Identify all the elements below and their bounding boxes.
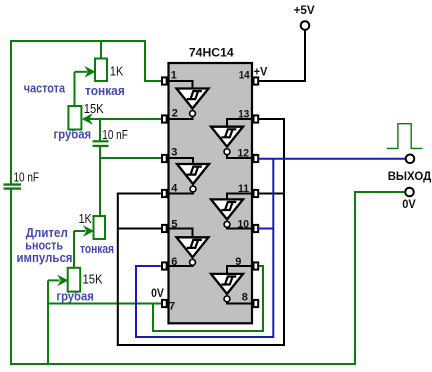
wire: pin 11 branch bbox=[258, 193, 284, 195]
svg-text:11: 11 bbox=[238, 183, 249, 195]
svg-text:тонкая: тонкая bbox=[85, 83, 125, 98]
op-amp U1F triangle bbox=[211, 274, 243, 294]
svg-text:2: 2 bbox=[172, 107, 178, 119]
svg-text:грубая: грубая bbox=[54, 127, 92, 142]
inverter U1E internal wiring (pin11 to pin10) bbox=[227, 194, 252, 229]
svg-text:5: 5 bbox=[171, 218, 177, 230]
svg-text:тонкая: тонкая bbox=[80, 241, 114, 256]
svg-text:15K: 15K bbox=[84, 101, 104, 116]
svg-text:15K: 15K bbox=[83, 272, 103, 287]
svg-text:4: 4 bbox=[171, 183, 178, 195]
ground rail 0V bottom bbox=[10, 363, 356, 365]
wire: left rail below C1 to ground rail bbox=[10, 189, 12, 365]
IC U1 74HC14 body bbox=[169, 63, 253, 323]
svg-text:10 nF: 10 nF bbox=[102, 127, 128, 142]
potentiometer R4 15K (duration coarse) bbox=[48, 268, 80, 292]
svg-text:грубая: грубая bbox=[56, 288, 93, 303]
svg-text:0V: 0V bbox=[151, 286, 164, 300]
pin pads left (1-7) bbox=[162, 77, 167, 307]
svg-text:7: 7 bbox=[169, 301, 175, 313]
svg-text:6: 6 bbox=[171, 256, 177, 268]
svg-text:74HC14: 74HC14 bbox=[189, 45, 234, 59]
terminal ВЫХОД bbox=[406, 155, 415, 164]
pin number labels bbox=[169, 70, 250, 313]
svg-text:+5V: +5V bbox=[294, 3, 315, 17]
svg-text:частота: частота bbox=[24, 80, 66, 95]
wire: pin 12 to output terminal bbox=[258, 158, 405, 160]
svg-text:ВЫХОД: ВЫХОД bbox=[388, 169, 432, 183]
svg-text:10 nF: 10 nF bbox=[14, 170, 40, 185]
potentiometer R3 1K (duration fine) bbox=[74, 216, 105, 239]
op-amp U1C triangle bbox=[177, 237, 209, 257]
svg-text:1: 1 bbox=[171, 70, 177, 82]
label Длительность импульса bbox=[17, 225, 73, 265]
svg-text:1K: 1K bbox=[79, 211, 92, 226]
svg-text:13: 13 bbox=[238, 108, 249, 120]
svg-text:14: 14 bbox=[239, 70, 251, 82]
capacitor C2 10nF (coupling) bbox=[93, 119, 109, 158]
wire: top-left rail from left rail to pin 1 bbox=[11, 41, 161, 184]
wire: green loop pin7 to pin 9 bbox=[153, 266, 263, 331]
wire: ground to pin 7 bbox=[48, 303, 161, 305]
inverter U1C internal wiring (pin5 to pin6) bbox=[168, 229, 193, 267]
pulse waveform symbol bbox=[387, 124, 423, 149]
inverter U1B internal wiring (pin3 to pin4) bbox=[168, 158, 194, 194]
wire: R3 wiper to R4 top bbox=[73, 231, 75, 268]
wire: 0V terminal to ground rail bbox=[355, 192, 405, 364]
wire: C2 bottom node to pin 3 bbox=[99, 157, 161, 159]
svg-text:8: 8 bbox=[242, 292, 248, 304]
inverter U1A internal wiring (pin1 to pin2) bbox=[168, 81, 193, 119]
op-amp U1A triangle bbox=[177, 89, 209, 109]
wire: pin 10 branch blue bbox=[258, 228, 273, 230]
pin pads right (8-14) bbox=[254, 77, 259, 307]
op-amp U1D triangle bbox=[211, 127, 243, 147]
wire: +5V supply bbox=[258, 31, 305, 82]
potentiometer R2 15K (frequency coarse) bbox=[68, 106, 162, 130]
op-amp U1B triangle bbox=[177, 164, 209, 184]
capacitor C1 10nF (left rail) bbox=[4, 185, 22, 189]
wire: pin 3 node down to R3 top bbox=[99, 158, 101, 216]
svg-text:1K: 1K bbox=[110, 63, 124, 78]
inverter U1D internal wiring (pin13 to pin12) bbox=[227, 119, 252, 158]
svg-text:0V: 0V bbox=[402, 197, 416, 211]
terminal 0V bbox=[405, 188, 414, 197]
svg-text:12: 12 bbox=[238, 148, 250, 160]
svg-text:+V: +V bbox=[254, 64, 267, 78]
wire: blue output bus pin6/pin10/pin12 bbox=[136, 158, 273, 337]
wire: R1 wiper to R2 top bbox=[74, 72, 76, 107]
svg-text:9: 9 bbox=[235, 256, 241, 268]
inverter U1F internal wiring (pin9 to pin8) bbox=[227, 266, 252, 304]
wire: black loop pin4 to pin13/pin11 bbox=[118, 119, 284, 345]
svg-text:импулься: импулься bbox=[17, 250, 73, 265]
wire: R4 wiper down to ground rail bbox=[47, 280, 49, 364]
terminal +5V bbox=[301, 21, 310, 30]
wire: pin 5 branch bbox=[118, 228, 161, 230]
svg-text:3: 3 bbox=[171, 147, 177, 159]
svg-text:10: 10 bbox=[238, 219, 250, 231]
op-amp U1E triangle bbox=[211, 199, 243, 219]
potentiometer R1 1K (frequency fine) bbox=[75, 41, 108, 81]
